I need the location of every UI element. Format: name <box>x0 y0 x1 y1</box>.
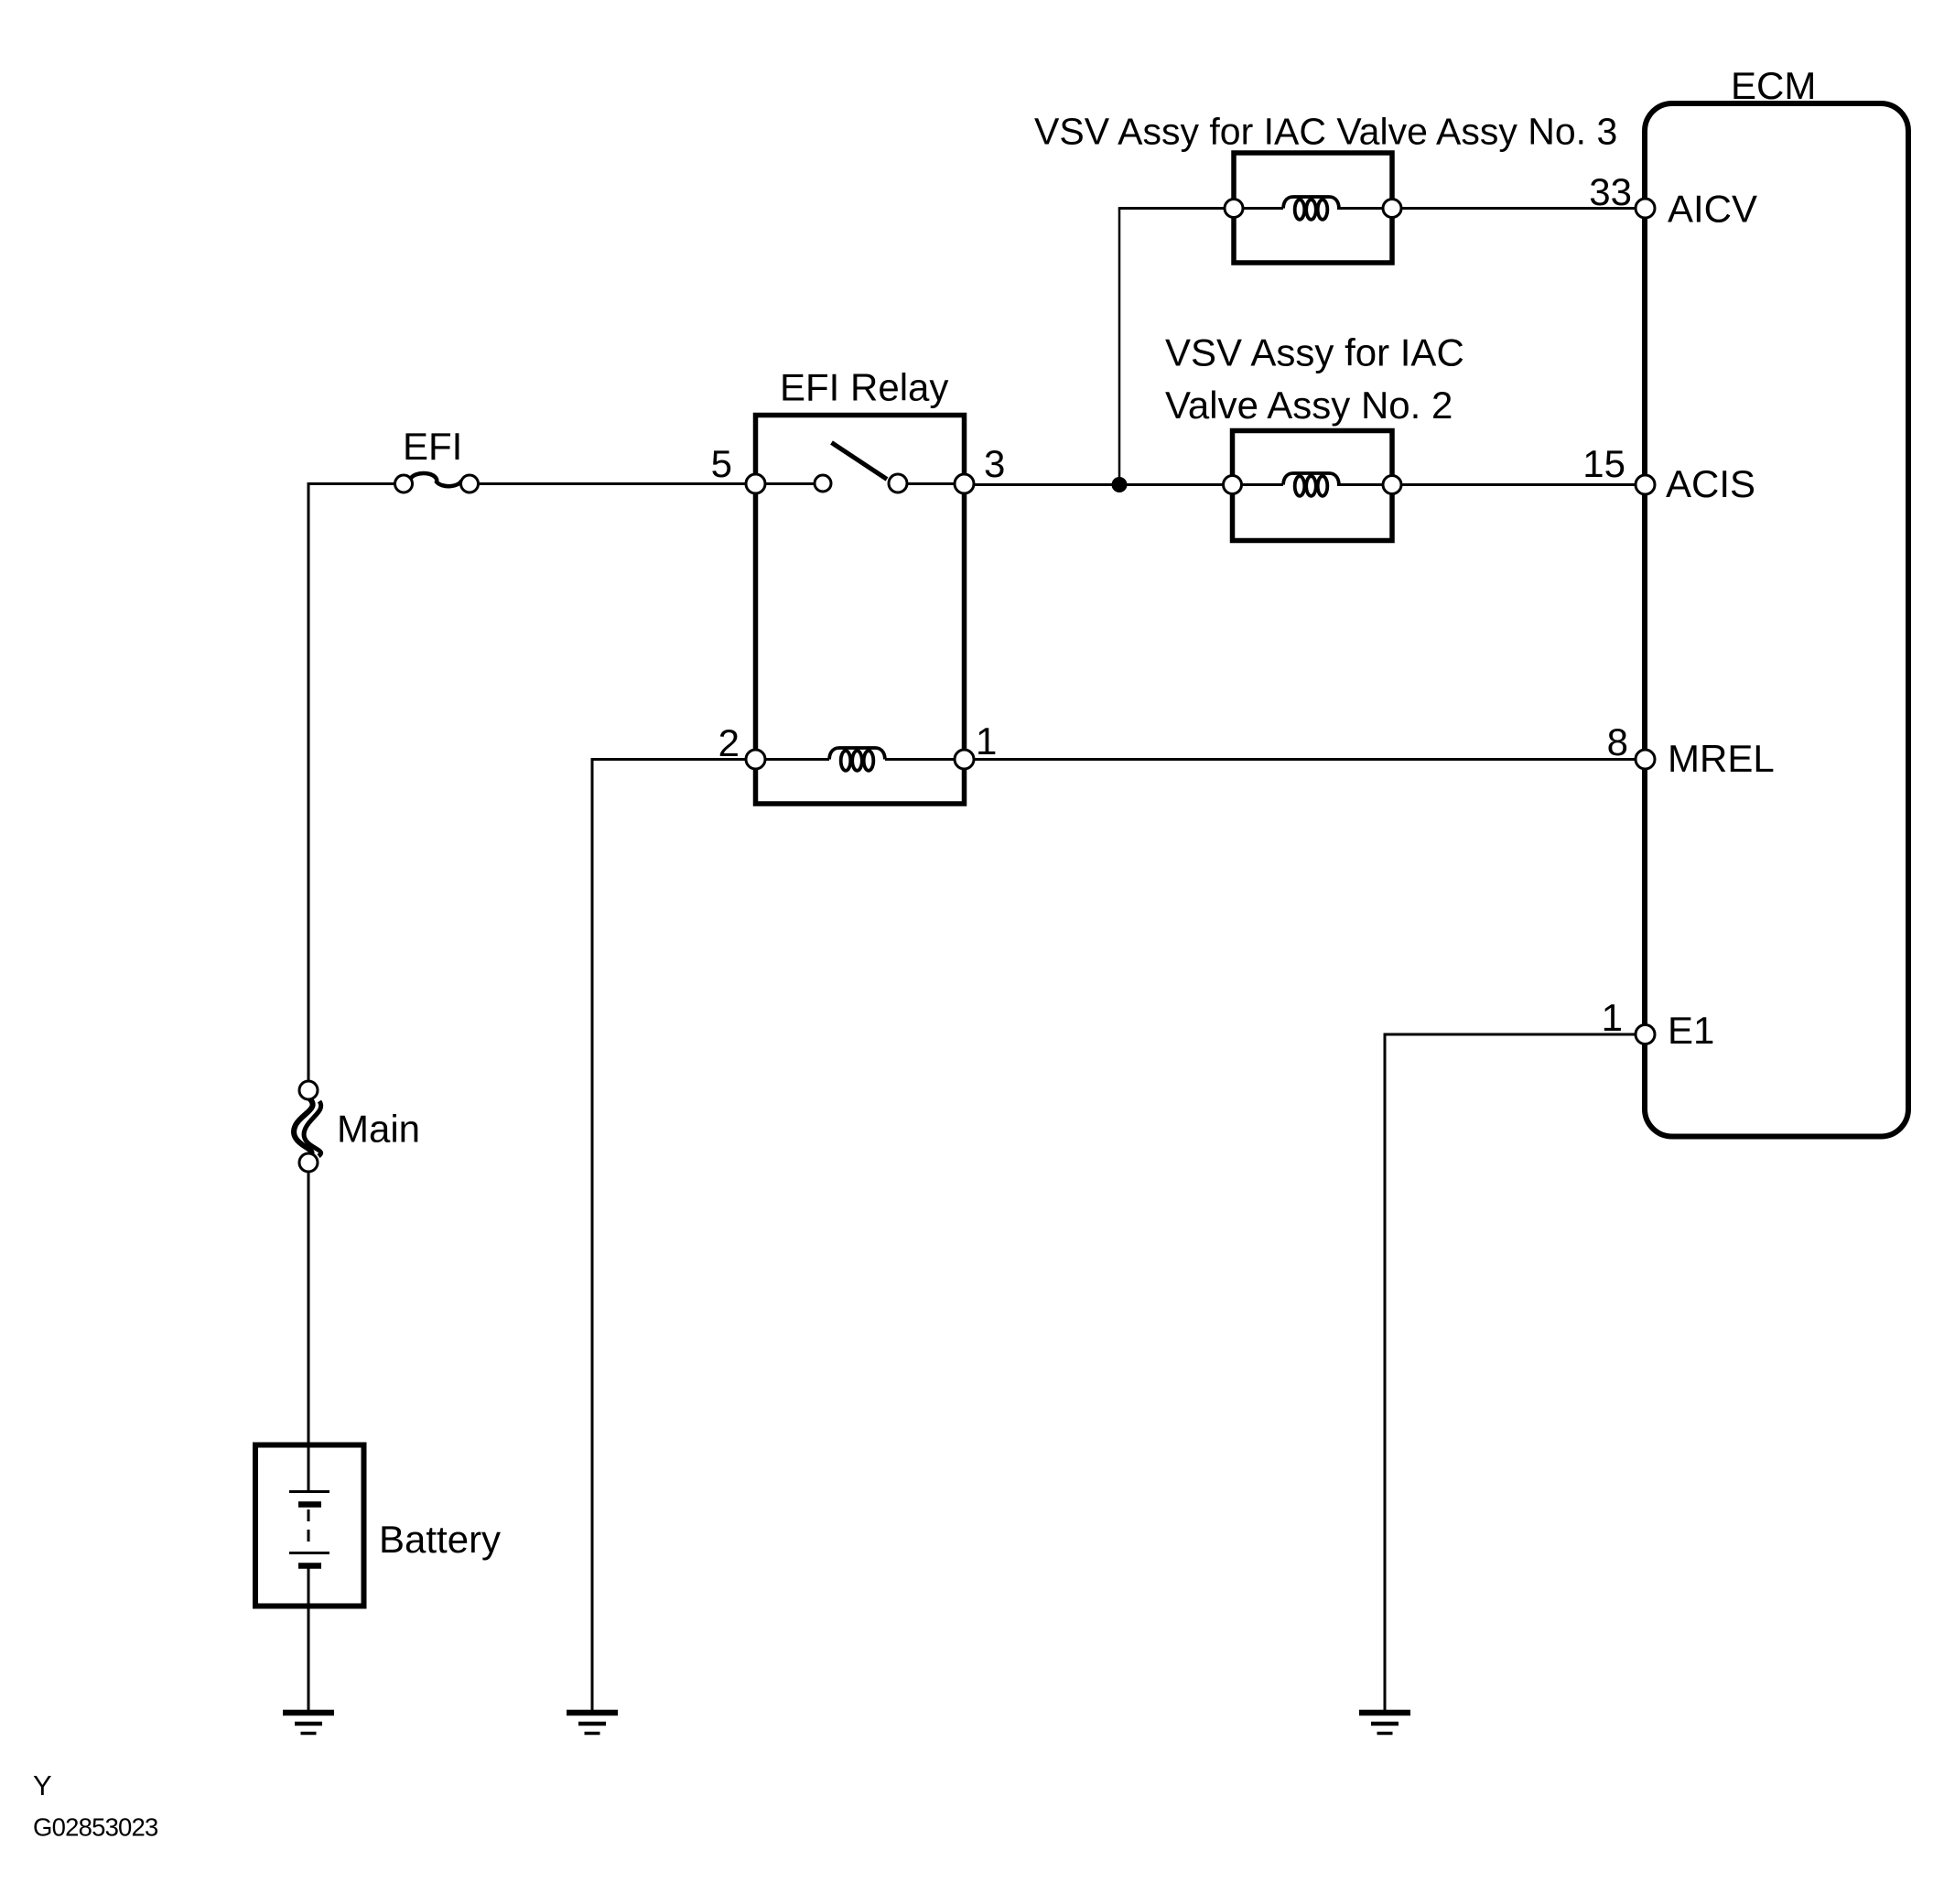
fuse EFI terminal circles <box>395 475 413 492</box>
relay pin 5 <box>746 474 765 493</box>
svg-text:ECM: ECM <box>1731 64 1816 107</box>
relay coil (pins 2-1) <box>829 748 885 771</box>
ground (battery) <box>283 1713 334 1734</box>
wire: relay pin 3 to ACIS pin 15 row (through VSV No.2) <box>965 483 1636 486</box>
wire: battery to ground vertical <box>308 1606 310 1713</box>
svg-text:15: 15 <box>1582 442 1625 485</box>
svg-text:G02853023: G02853023 <box>33 1813 158 1842</box>
relay pin 3 <box>955 474 974 493</box>
Main fusible link symbol <box>294 1098 321 1156</box>
wire: relay pin 2 ground drop vertical <box>591 758 594 1713</box>
svg-text:8: 8 <box>1607 720 1628 763</box>
svg-text:MREL: MREL <box>1668 737 1775 780</box>
wire: E1 ground drop vertical <box>1384 1033 1387 1714</box>
VSV No.3 terminal circles <box>1225 200 1243 218</box>
svg-text:1: 1 <box>1602 996 1623 1039</box>
svg-text:EFI Relay: EFI Relay <box>780 366 948 409</box>
svg-text:3: 3 <box>984 442 1005 485</box>
fuse EFI symbol (wave between terminals) <box>411 473 462 486</box>
battery internal symbol <box>289 1444 329 1606</box>
ECM pin 33 AICV circle <box>1636 199 1655 218</box>
VSV No.3 solenoid coil <box>1283 197 1339 220</box>
VSV No.2 solenoid coil <box>1283 473 1339 496</box>
svg-text:Valve Assy No. 2: Valve Assy No. 2 <box>1165 384 1453 427</box>
wire: E1 row from ground drop to ECM pin 1 <box>1385 1033 1636 1036</box>
Battery box <box>255 1445 364 1606</box>
svg-text:2: 2 <box>718 721 740 764</box>
VSV No.2 terminal circles <box>1224 476 1242 494</box>
ground (EFI relay pin 2) <box>567 1713 618 1734</box>
svg-text:Main: Main <box>337 1108 420 1151</box>
wire: relay internal, pin 5 to switch contact and contact to pin 3 <box>756 482 965 485</box>
EFI Relay box <box>756 416 965 805</box>
svg-text:33: 33 <box>1589 170 1632 213</box>
svg-text:1: 1 <box>976 719 997 763</box>
wire: left vertical from EFI row down to Main fusible link and battery <box>308 482 310 1444</box>
svg-text:Battery: Battery <box>379 1518 501 1561</box>
relay pin 2 <box>746 750 765 769</box>
VSV Assy No.3 box <box>1234 153 1392 263</box>
VSV Assy No.2 box <box>1233 431 1393 541</box>
wire: battery positive feed, EFI fuse row from left vertical to relay pin 5 <box>308 482 756 485</box>
svg-text:AICV: AICV <box>1668 188 1757 231</box>
ECM pin 1 E1 circle <box>1636 1025 1655 1044</box>
relay pin 1 <box>955 750 974 769</box>
ECM box <box>1645 103 1908 1137</box>
relay switch contact circles <box>815 475 831 492</box>
svg-text:Y: Y <box>33 1769 52 1801</box>
svg-text:VSV Assy for IAC: VSV Assy for IAC <box>1165 331 1464 374</box>
svg-text:5: 5 <box>711 442 732 485</box>
Main fusible link terminal circles <box>299 1081 318 1099</box>
svg-text:ACIS: ACIS <box>1666 462 1755 505</box>
relay switch blade (pins 5-3) <box>832 443 888 480</box>
wire: branch vertical from junction up to VSV No.3 row <box>1118 209 1121 485</box>
svg-text:E1: E1 <box>1668 1009 1714 1052</box>
ECM pin 15 ACIS circle <box>1636 475 1655 494</box>
wire: AICV row from branch through VSV No.3 to ECM pin 33 <box>1118 207 1636 210</box>
node: junction dot on ACIS row <box>1112 477 1128 492</box>
svg-text:VSV Assy for IAC Valve Assy No: VSV Assy for IAC Valve Assy No. 3 <box>1034 111 1617 153</box>
ground (ECM E1) <box>1359 1713 1410 1734</box>
wire: MREL row, relay coil pins 2-1 to ECM pin 8 and left to ground drop <box>592 758 1636 761</box>
svg-text:EFI: EFI <box>403 425 462 468</box>
ECM pin 8 MREL circle <box>1636 750 1655 769</box>
